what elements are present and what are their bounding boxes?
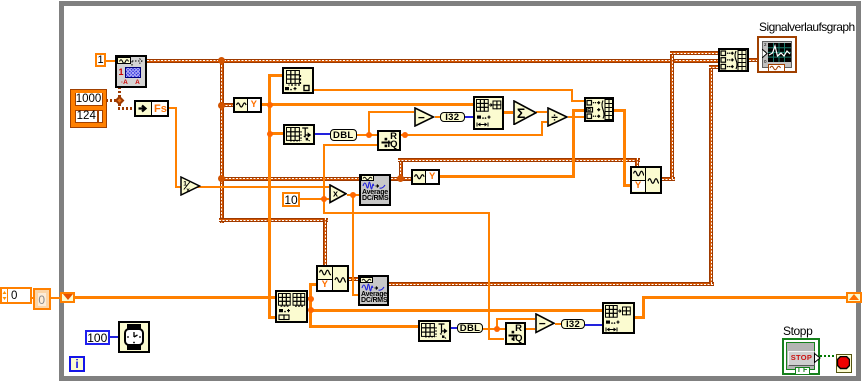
svg-text:−: −: [539, 317, 546, 331]
svg-text:x: x: [333, 188, 338, 198]
svg-text:÷: ÷: [551, 110, 558, 124]
svg-text:−: −: [418, 110, 425, 124]
svg-text:x: x: [186, 187, 190, 194]
svg-text:Σ: Σ: [517, 104, 525, 120]
